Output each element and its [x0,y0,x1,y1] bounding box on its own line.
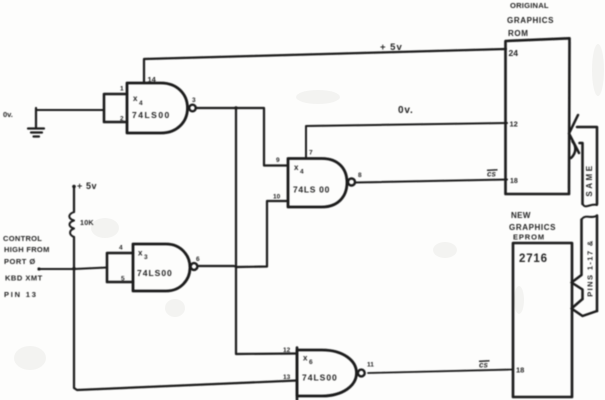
nand gate U4 74LS00 body [297,350,357,396]
wire U3 pin8 output to ROM pin18 [355,180,507,183]
wire U2 input bracket pins 4-5 [107,253,133,282]
svg-text:PINS 1-17 &: PINS 1-17 & [586,239,595,297]
svg-text:12: 12 [510,120,518,129]
wire +5v rail from gate U1 pin14 to ROM pin 24 [144,49,506,83]
svg-text:SAME: SAME [585,163,594,196]
nand gate U2 output bubble [191,263,198,270]
svg-text:x: x [303,354,308,363]
svg-text:10K: 10K [80,218,94,227]
svg-text:6: 6 [309,359,313,366]
svg-text:2716: 2716 [519,253,548,265]
wire +5v to resistor R1 [73,187,75,212]
svg-text:7: 7 [309,150,313,157]
svg-text:8: 8 [358,172,362,179]
svg-text:3: 3 [144,254,148,261]
svg-text:GRAPHICS: GRAPHICS [507,16,554,25]
svg-text:x: x [133,94,138,103]
wire R1 bottom through node B down to U4 pin13 [74,237,297,390]
wire U4 pin11 output to EPROM pin18 [368,370,513,374]
svg-text:KBD XMT: KBD XMT [5,274,43,283]
resistor R1 zigzag [69,212,74,237]
node control input endpoint dot [37,267,40,270]
nand gate U3 output bubble [348,179,355,186]
svg-text:13: 13 [283,374,291,381]
svg-text:0v.: 0v. [3,110,13,119]
svg-text:74LS00: 74LS00 [137,268,173,278]
svg-text:14: 14 [148,75,157,84]
node B junction dot [72,267,76,271]
wire 0v input to U1 bracket [36,109,104,111]
svg-text:GRAPHICS: GRAPHICS [509,223,556,232]
wire control input to U2 bracket [39,268,107,270]
wire U1 pin3 output to U3 pin9 [196,108,288,166]
svg-text:18: 18 [516,366,524,375]
wire U3 pin7 stub to 0v line to ROM pin12 [306,123,507,159]
svg-text:18: 18 [510,178,518,185]
wire long vertical from node A to U4 pin12 [236,108,297,354]
svg-text:2: 2 [120,116,124,123]
svg-text:0v.: 0v. [398,105,414,116]
wire U1 input bracket pins 1-2 [104,94,127,122]
svg-text:+ 5v: + 5v [77,181,97,191]
nand gate U1 output bubble [189,105,196,112]
svg-text:+ 5v: + 5v [380,42,403,53]
svg-text:4: 4 [300,169,304,176]
svg-text:11: 11 [367,362,374,369]
svg-text:ROM: ROM [508,29,528,38]
svg-text:CONTROL: CONTROL [3,234,42,243]
svg-text:PIN 13: PIN 13 [4,290,38,299]
svg-text:4: 4 [139,100,143,107]
svg-text:5: 5 [121,276,125,283]
nand gate U2 74LS00 body [133,244,190,291]
ribbon arrow into ROM [569,115,597,206]
svg-text:x: x [294,163,299,172]
svg-text:74LS 00: 74LS 00 [293,185,330,195]
svg-text:10: 10 [273,194,281,201]
nand gate U4 left edge overshoot [296,348,299,400]
svg-text:EPROM: EPROM [513,233,545,242]
wire U2 pin6 output to U3 pin10 [198,201,289,267]
node A junction dot [234,106,237,109]
nand gate U1 74LS00 body [127,83,188,133]
nand gate U4 output bubble [358,370,365,377]
svg-text:9: 9 [276,157,280,164]
svg-text:HIGH FROM: HIGH FROM [4,245,50,254]
new graphics EPROM 2716 box [513,243,572,397]
nand gate U3 74LS00 body [288,159,347,208]
svg-text:4: 4 [119,245,123,252]
svg-text:ORIGINAL: ORIGINAL [510,1,549,10]
svg-text:1: 1 [120,86,124,93]
svg-text:74LS00: 74LS00 [132,110,171,120]
node +5v top of resistor dot [72,185,76,189]
svg-text:24: 24 [509,48,519,58]
ribbon strip with arrows into EPROM [572,216,598,317]
svg-text:PORT Ø: PORT Ø [4,257,36,266]
svg-text:NEW: NEW [511,211,531,220]
svg-text:12: 12 [283,347,291,354]
svg-text:3: 3 [192,97,196,104]
svg-text:x: x [138,249,143,258]
svg-text:74LS00: 74LS00 [302,373,338,383]
original graphics ROM box [506,38,570,194]
ground [28,108,44,137]
svg-text:6: 6 [196,256,200,263]
